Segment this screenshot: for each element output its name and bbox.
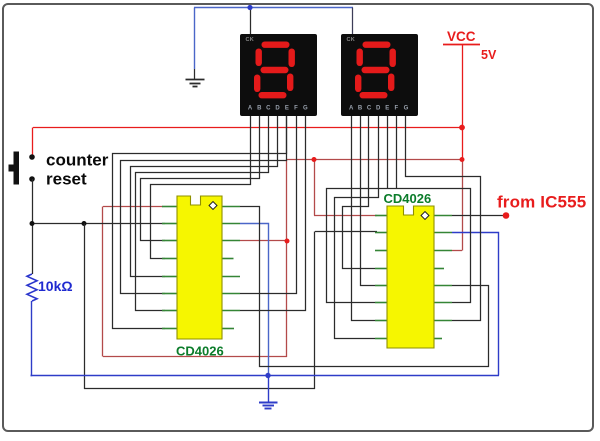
resistor R1 10k [27, 274, 37, 301]
node ground junction [265, 373, 270, 378]
wire blue IC2-R2 drop [452, 233, 499, 376]
wire IC2 R5 carry to IC1 R1 [240, 207, 489, 367]
IC1 pin stubs [162, 207, 240, 329]
wire button to junction [32, 179, 34, 274]
svg-text:from IC555: from IC555 [497, 193, 586, 212]
svg-text:10kΩ: 10kΩ [38, 278, 73, 294]
wire VCC vertical lower [462, 160, 464, 251]
wire display1 pin F to IC1 R6 [240, 116, 297, 294]
wire display1 CK drop [250, 8, 252, 36]
wire reset rail to IC1 L2 [32, 223, 165, 225]
node IC555 terminal [503, 212, 510, 219]
wire reset bottom rail [84, 388, 315, 390]
wire blue vertical to ground [194, 8, 196, 70]
ground G1 [186, 69, 205, 87]
wire red to IC2 pin R3 [452, 250, 462, 252]
svg-text:reset: reset [46, 169, 87, 188]
node red junction x287 [285, 239, 290, 244]
node reset junction B [82, 221, 87, 226]
wire display1 pin D to IC1 [131, 116, 278, 277]
wire red to IC1 pin R3 [240, 240, 287, 242]
wire blue IC1-R2 [240, 224, 269, 376]
wire display2 pin F drop [396, 116, 398, 188]
wire display2 CK drop [352, 8, 354, 36]
svg-text:F: F [394, 106, 398, 112]
node VCC junction 2 [460, 157, 465, 162]
wire VCC rail y127 [33, 127, 462, 129]
wire display2 pin D to IC2 L8 [335, 116, 379, 339]
wire display1 pin E2 to IC1 [113, 116, 287, 329]
wire red mid vertical [286, 160, 288, 358]
svg-text:VCC: VCC [447, 29, 476, 44]
wire display1 pin G to IC1 R7 [240, 116, 306, 311]
svg-text:counter: counter [46, 150, 109, 169]
svg-text:G: G [303, 106, 308, 112]
svg-text:E: E [285, 106, 289, 112]
svg-text:B: B [257, 106, 262, 112]
wire display2 pin A to IC2 L7 [352, 116, 376, 321]
wire clock-top blue horizontal [194, 7, 353, 9]
svg-text:E: E [385, 106, 389, 112]
ground G2 [259, 376, 278, 409]
pushbutton S1 counter-reset [9, 152, 35, 185]
wire reset down x84 [84, 224, 86, 390]
wire red rail y159 [287, 159, 462, 161]
wire display2 pin B to IC2 L5 [361, 116, 376, 286]
display DS1 7-segment [240, 34, 317, 116]
wire VCC vertical [462, 45, 464, 161]
wire red bottom [103, 356, 287, 358]
IC2 pin stubs [375, 216, 452, 339]
node VCC junction 1 [459, 125, 465, 131]
wire IC2 L6 to R6 over-the-top [327, 189, 471, 303]
node clock junction [247, 5, 252, 10]
svg-text:F: F [294, 106, 298, 112]
svg-text:C: C [266, 106, 271, 112]
wire IC2 R1 clock input [452, 215, 506, 217]
wire display1 pin E to IC1 [121, 116, 287, 294]
wire display1 pin C to IC1 [136, 116, 269, 311]
node reset junction A [30, 221, 35, 226]
wire reset up x315 [314, 232, 316, 390]
wire red to IC2 pin L1 [314, 215, 377, 217]
svg-text:A: A [248, 106, 253, 112]
node red junction x314 [312, 157, 317, 162]
wire reset to IC2 L2 [315, 231, 377, 233]
svg-text:D: D [275, 106, 280, 112]
svg-text:CK: CK [347, 37, 356, 43]
wire display1 pin B to IC1 [141, 116, 260, 241]
wire red drop x314 [314, 160, 316, 216]
ic U2 CD4026 [387, 206, 434, 348]
svg-text:D: D [376, 106, 381, 112]
svg-text:CD4026: CD4026 [384, 191, 432, 206]
power VCC 5V [443, 29, 497, 62]
svg-text:G: G [404, 106, 409, 112]
svg-text:B: B [358, 106, 363, 112]
wire ground rail blue [31, 375, 500, 377]
svg-text:A: A [349, 106, 354, 112]
svg-text:CD4026: CD4026 [176, 344, 224, 359]
wire red to IC1 pin L1 [103, 206, 163, 208]
wire display2 pin C to IC2 L4 [343, 116, 376, 269]
svg-text:CK: CK [246, 37, 255, 43]
wire red to button [32, 128, 34, 158]
svg-text:5V: 5V [481, 48, 497, 62]
display DS2 7-segment [341, 34, 418, 116]
svg-text:C: C [367, 106, 372, 112]
wire display1 pin A to IC1 [151, 116, 251, 259]
wire red left vertical [102, 207, 104, 357]
wire resistor bottom blue [31, 301, 32, 376]
wire display2 pin E drop [387, 116, 389, 188]
ic U1 CD4026 [177, 196, 222, 339]
wire display2 pin G loop to IC2 R7 [406, 116, 481, 321]
